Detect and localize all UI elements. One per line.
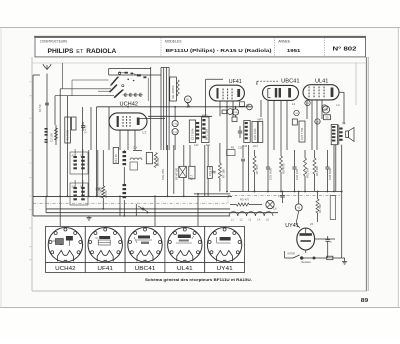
svg-text:R1 500: R1 500 (318, 204, 322, 213)
svg-text:MODELES: MODELES (165, 39, 182, 43)
svg-text:C18: C18 (243, 146, 248, 148)
svg-text:S1L 10000: S1L 10000 (171, 85, 175, 99)
svg-text:UY41: UY41 (217, 266, 233, 272)
svg-text:R10 1M: R10 1M (305, 168, 309, 178)
svg-text:ET: ET (76, 49, 83, 55)
svg-text:C17: C17 (190, 174, 194, 180)
svg-text:MF2 128: MF2 128 (205, 129, 209, 140)
svg-text:C7 5000: C7 5000 (98, 187, 102, 198)
svg-text:UL41: UL41 (177, 266, 193, 272)
svg-text:1951: 1951 (287, 48, 301, 54)
svg-text:UL41: UL41 (315, 78, 328, 84)
svg-text:UBC41: UBC41 (281, 78, 299, 84)
svg-text:UF41: UF41 (97, 266, 113, 272)
svg-text:UF41: UF41 (229, 79, 242, 85)
svg-text:BF AT185: BF AT185 (175, 167, 179, 180)
svg-text:C11 25: C11 25 (114, 154, 118, 163)
svg-text:C2 150: C2 150 (50, 133, 54, 142)
svg-text:C1 50: C1 50 (38, 104, 42, 112)
svg-text:INTER: INTER (287, 251, 295, 255)
svg-text:Schéma général des récepteu: Schéma général des récepteurs BF111U et … (145, 278, 252, 282)
svg-text:1113: 1113 (253, 146, 258, 148)
svg-text:C17 10%: C17 10% (191, 128, 195, 140)
svg-text:C27 7.5%: C27 7.5% (300, 127, 304, 140)
svg-text:R7 38K: R7 38K (222, 169, 226, 178)
svg-text:C25 5000: C25 5000 (268, 167, 272, 180)
svg-text:N° 802: N° 802 (333, 46, 357, 52)
svg-text:L6: L6 (274, 207, 278, 211)
svg-text:C26 10K: C26 10K (295, 169, 299, 180)
svg-text:D11: D11 (206, 144, 211, 147)
svg-text:BF111U (Philips) - RA15 U (Rad: BF111U (Philips) - RA15 U (Radiola) (166, 48, 273, 53)
svg-text:MF3: MF3 (258, 118, 264, 122)
svg-text:L5: L5 (310, 222, 314, 226)
svg-text:PHILIPS: PHILIPS (48, 49, 74, 55)
svg-text:L3: L3 (292, 102, 296, 106)
svg-text:C20 10%: C20 10% (253, 128, 257, 140)
svg-text:C14: C14 (133, 147, 138, 150)
svg-text:Secteur: Secteur (301, 260, 311, 264)
svg-text:C23: C23 (238, 147, 243, 150)
svg-text:RG 470: RG 470 (240, 197, 249, 201)
svg-text:L1: L1 (143, 131, 147, 135)
svg-text:UY41: UY41 (285, 223, 299, 229)
svg-text:CONSTRUCTEURS: CONSTRUCTEURS (40, 39, 68, 43)
svg-text:C: C (330, 241, 332, 244)
svg-text:UCH42: UCH42 (55, 266, 76, 272)
svg-text:R9 4700: R9 4700 (281, 163, 285, 174)
svg-text:C19 25: C19 25 (208, 167, 212, 176)
svg-text:MF2: MF2 (202, 114, 208, 118)
svg-text:ANNEE: ANNEE (278, 39, 291, 43)
svg-text:TR: TR (342, 122, 346, 126)
svg-text:R5 2M: R5 2M (156, 157, 160, 166)
svg-text:CAL 25K: CAL 25K (161, 169, 165, 180)
svg-text:RADIOLA: RADIOLA (86, 49, 117, 55)
svg-text:H1: H1 (186, 98, 190, 102)
svg-text:R11 4M: R11 4M (315, 166, 319, 176)
svg-text:C4 70: C4 70 (84, 125, 88, 133)
svg-text:R4 50: R4 50 (104, 190, 108, 198)
svg-text:C33: C33 (324, 110, 329, 112)
svg-text:UBC41: UBC41 (135, 266, 156, 272)
svg-text:51.7009: 51.7009 (66, 129, 70, 140)
svg-text:R7 47K: R7 47K (255, 165, 259, 174)
svg-text:C10: C10 (194, 144, 199, 147)
svg-text:89: 89 (361, 298, 368, 304)
svg-text:C28 5000: C28 5000 (328, 167, 332, 180)
svg-text:L4: L4 (337, 103, 341, 107)
